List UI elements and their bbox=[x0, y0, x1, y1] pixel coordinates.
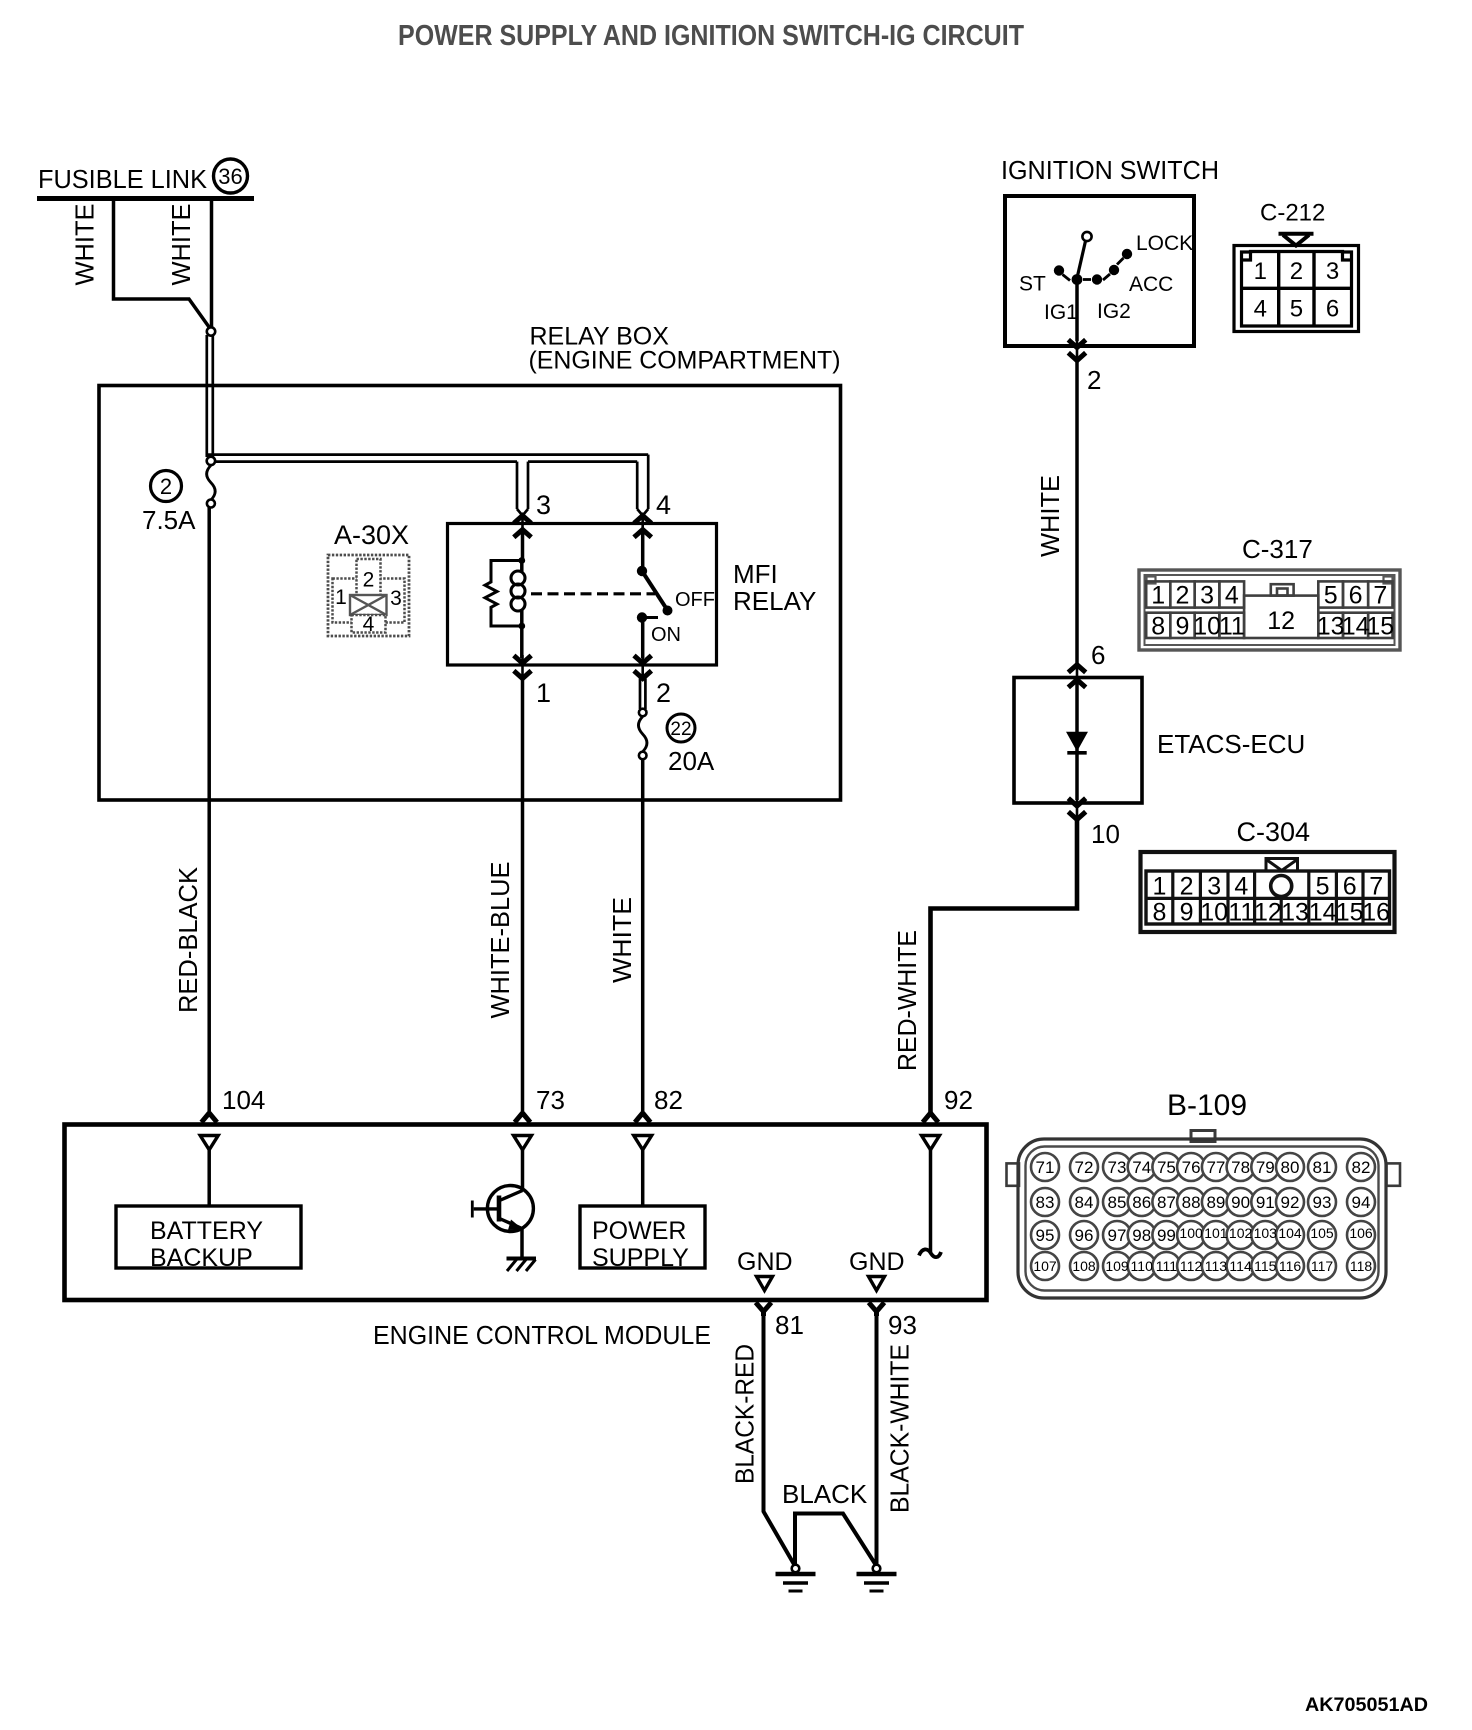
svg-text:5: 5 bbox=[1324, 582, 1338, 610]
C-317 pin 12 cell bbox=[1244, 584, 1318, 638]
svg-text:4: 4 bbox=[656, 490, 671, 520]
C-317 pin cells row 1 (1-4) bbox=[1146, 581, 1244, 607]
svg-text:ST: ST bbox=[1019, 273, 1046, 296]
svg-text:118: 118 bbox=[1350, 1258, 1373, 1274]
relay switch blade (OFF position) bbox=[642, 571, 667, 610]
ground (transistor emitter, chassis) bbox=[507, 1259, 537, 1272]
B-109 pin circles 71-118 bbox=[1031, 1153, 1375, 1280]
connector B-109 shell bbox=[1007, 1131, 1401, 1299]
svg-text:103: 103 bbox=[1254, 1225, 1278, 1241]
contact LOCK bbox=[1117, 249, 1132, 265]
svg-text:6: 6 bbox=[1343, 873, 1357, 901]
bus wire horizontal (relay box internal) bbox=[207, 455, 648, 462]
svg-text:4: 4 bbox=[1254, 296, 1267, 323]
svg-text:RED-BLACK: RED-BLACK bbox=[173, 866, 203, 1013]
svg-text:WHITE-BLUE: WHITE-BLUE bbox=[485, 862, 515, 1019]
svg-text:94: 94 bbox=[1352, 1193, 1371, 1212]
svg-text:GND: GND bbox=[737, 1248, 793, 1276]
wire continuation hook (to other circuits) bbox=[919, 1249, 941, 1257]
bus wire (double line) into relay box bbox=[207, 335, 213, 457]
relay box (engine compartment) outline bbox=[99, 386, 841, 801]
svg-text:5: 5 bbox=[1290, 296, 1303, 323]
ECM pin 92 terminal bbox=[923, 1113, 939, 1122]
svg-text:75: 75 bbox=[1157, 1158, 1176, 1177]
svg-text:POWER SUPPLY AND IGNITION SWIT: POWER SUPPLY AND IGNITION SWITCH-IG CIRC… bbox=[398, 20, 1024, 52]
wire RED-WHITE (ETACS pin 10 to ECM pin 92) bbox=[931, 820, 1078, 1114]
wire IG1 down to switch pin 2 bbox=[1075, 280, 1079, 342]
svg-text:4: 4 bbox=[1234, 873, 1248, 901]
svg-text:IG1: IG1 bbox=[1044, 301, 1078, 324]
connector C-212 body bbox=[1234, 246, 1359, 332]
svg-text:20A: 20A bbox=[668, 746, 715, 776]
C-317 pin cells 13-15 bbox=[1318, 613, 1392, 638]
svg-text:2: 2 bbox=[1290, 258, 1303, 285]
bus wire branch to relay pin 3 bbox=[517, 462, 528, 516]
ECM pin 82 terminal bbox=[635, 1113, 651, 1122]
svg-text:1: 1 bbox=[1254, 258, 1267, 285]
svg-text:7: 7 bbox=[1369, 873, 1383, 901]
svg-text:5: 5 bbox=[1316, 873, 1330, 901]
svg-text:112: 112 bbox=[1180, 1258, 1203, 1274]
svg-text:97: 97 bbox=[1108, 1226, 1127, 1245]
svg-text:15: 15 bbox=[1336, 899, 1364, 927]
svg-text:93: 93 bbox=[1313, 1193, 1332, 1212]
svg-text:11: 11 bbox=[1219, 613, 1245, 641]
svg-text:90: 90 bbox=[1231, 1193, 1250, 1212]
svg-text:LOCK: LOCK bbox=[1136, 232, 1193, 255]
svg-text:13: 13 bbox=[1281, 899, 1309, 927]
svg-text:10: 10 bbox=[1091, 819, 1120, 849]
relay coil shunt resistor R1 bbox=[485, 561, 522, 627]
svg-text:117: 117 bbox=[1311, 1258, 1334, 1274]
svg-text:15: 15 bbox=[1366, 613, 1394, 641]
svg-text:3: 3 bbox=[390, 587, 402, 610]
svg-text:72: 72 bbox=[1075, 1158, 1094, 1177]
relay box label bbox=[529, 323, 841, 375]
svg-text:104: 104 bbox=[1278, 1225, 1302, 1241]
svg-text:2: 2 bbox=[656, 678, 671, 708]
svg-text:111: 111 bbox=[1156, 1258, 1177, 1274]
svg-text:116: 116 bbox=[1279, 1258, 1302, 1274]
svg-text:88: 88 bbox=[1182, 1193, 1201, 1212]
svg-text:82: 82 bbox=[654, 1085, 683, 1115]
C-212 pin numbers 1-6 bbox=[1254, 258, 1340, 323]
svg-text:108: 108 bbox=[1072, 1258, 1096, 1274]
svg-text:87: 87 bbox=[1157, 1193, 1176, 1212]
relay ON contact bbox=[637, 612, 658, 622]
ECM pin 81 terminal (below box) bbox=[756, 1303, 772, 1317]
junction node coil top bbox=[518, 557, 525, 564]
svg-text:16: 16 bbox=[1362, 899, 1390, 927]
svg-text:79: 79 bbox=[1256, 1158, 1275, 1177]
bus wire (double line) pin 2 to fuse 22 bbox=[640, 679, 645, 710]
svg-text:12: 12 bbox=[1267, 607, 1295, 635]
wire ON contact to pin 2 bbox=[641, 618, 645, 659]
GND terminal triangle (pin 93) bbox=[869, 1277, 885, 1291]
svg-text:2: 2 bbox=[1176, 582, 1190, 610]
svg-text:BATTERY: BATTERY bbox=[150, 1217, 263, 1245]
svg-text:C-317: C-317 bbox=[1242, 534, 1313, 564]
diode D1 inside ETACS bbox=[1067, 733, 1086, 753]
C-304 pin grid bbox=[1146, 871, 1390, 924]
svg-text:10: 10 bbox=[1200, 899, 1228, 927]
svg-text:ETACS-ECU: ETACS-ECU bbox=[1157, 729, 1305, 759]
svg-text:92: 92 bbox=[1281, 1193, 1300, 1212]
svg-text:93: 93 bbox=[888, 1310, 917, 1340]
ECM internal terminal triangle (pin 104) bbox=[200, 1136, 218, 1150]
svg-text:WHITE: WHITE bbox=[1035, 475, 1065, 557]
relay pin 3 connector arrows bbox=[514, 516, 531, 538]
BATTERY BACKUP block bbox=[116, 1206, 301, 1272]
wire WHITE ignition to ETACS pin 6 bbox=[1075, 361, 1079, 666]
svg-text:36: 36 bbox=[218, 164, 242, 189]
svg-text:9: 9 bbox=[1176, 613, 1190, 641]
svg-text:110: 110 bbox=[1131, 1258, 1154, 1274]
wire to power supply block bbox=[641, 1150, 645, 1206]
svg-text:C-304: C-304 bbox=[1237, 817, 1311, 847]
svg-text:WHITE: WHITE bbox=[70, 204, 100, 286]
svg-text:WHITE: WHITE bbox=[607, 897, 637, 983]
wire BLACK-RED (ECM pin 81 to ground) bbox=[764, 1316, 796, 1566]
contact IG2 bbox=[1083, 274, 1102, 284]
svg-text:9: 9 bbox=[1180, 899, 1194, 927]
ETACS-ECU box bbox=[1014, 678, 1142, 804]
svg-text:1: 1 bbox=[536, 678, 551, 708]
svg-text:81: 81 bbox=[775, 1310, 804, 1340]
relay coil L1 bbox=[511, 561, 525, 627]
ECM pin 93 terminal (below box) bbox=[869, 1303, 885, 1317]
connector A-30X pin layout symbol bbox=[328, 555, 409, 636]
svg-text:115: 115 bbox=[1254, 1258, 1277, 1274]
relay coil wire from pin 3 bbox=[521, 530, 525, 561]
transistor Q1 bbox=[472, 1186, 533, 1232]
svg-text:106: 106 bbox=[1349, 1225, 1373, 1241]
contact ST bbox=[1054, 265, 1070, 280]
svg-text:73: 73 bbox=[1108, 1158, 1127, 1177]
svg-text:89: 89 bbox=[1206, 1193, 1225, 1212]
svg-text:82: 82 bbox=[1352, 1158, 1371, 1177]
C-304 pin numbers bbox=[1152, 873, 1390, 927]
ECM pin 73 terminal bbox=[515, 1113, 531, 1122]
svg-text:86: 86 bbox=[1132, 1193, 1151, 1212]
connector C-212 orientation triangle bbox=[1279, 234, 1314, 246]
svg-text:76: 76 bbox=[1182, 1158, 1201, 1177]
svg-text:2: 2 bbox=[1087, 365, 1101, 395]
svg-text:6: 6 bbox=[1349, 582, 1363, 610]
svg-text:6: 6 bbox=[1326, 296, 1339, 323]
svg-text:7: 7 bbox=[1373, 582, 1387, 610]
engine control module box bbox=[65, 1125, 987, 1301]
svg-text:B-109: B-109 bbox=[1167, 1089, 1247, 1122]
svg-text:RED-WHITE: RED-WHITE bbox=[892, 930, 922, 1071]
svg-text:BLACK: BLACK bbox=[782, 1479, 868, 1509]
contact ACC bbox=[1103, 265, 1119, 280]
fuse reference circled 2 bbox=[151, 471, 182, 502]
svg-text:10: 10 bbox=[1193, 613, 1221, 641]
ETACS pin 10 connector arrows bbox=[1068, 798, 1085, 820]
svg-text:80: 80 bbox=[1281, 1158, 1300, 1177]
svg-text:100: 100 bbox=[1179, 1225, 1203, 1241]
svg-text:113: 113 bbox=[1205, 1258, 1228, 1274]
ECM pin 104 terminal bbox=[201, 1113, 217, 1122]
svg-text:104: 104 bbox=[222, 1085, 265, 1115]
relay pin 1 connector arrows bbox=[514, 626, 531, 679]
svg-text:BACKUP: BACKUP bbox=[150, 1244, 253, 1272]
fuse 2 (7.5A) symbol bbox=[207, 465, 216, 507]
wire to transistor collector bbox=[521, 1150, 525, 1191]
svg-text:83: 83 bbox=[1036, 1193, 1055, 1212]
ground symbol (BLACK-WHITE) bbox=[857, 1565, 897, 1591]
fuse reference circled 22 bbox=[667, 714, 695, 742]
svg-text:3: 3 bbox=[1326, 258, 1339, 285]
wire pin 92 internal bbox=[929, 1150, 933, 1252]
svg-text:A-30X: A-30X bbox=[334, 520, 409, 550]
C-317 pin cells 5-7 bbox=[1318, 581, 1392, 607]
wire inside ETACS bbox=[1075, 680, 1079, 800]
svg-text:11: 11 bbox=[1228, 899, 1254, 927]
svg-text:107: 107 bbox=[1033, 1258, 1057, 1274]
svg-text:13: 13 bbox=[1317, 613, 1345, 641]
MFI relay outline U1 bbox=[448, 524, 717, 666]
junction node (wire join above relay box) bbox=[207, 327, 215, 335]
svg-text:FUSIBLE LINK: FUSIBLE LINK bbox=[38, 164, 208, 194]
svg-text:1: 1 bbox=[1151, 582, 1165, 610]
svg-text:3: 3 bbox=[1207, 873, 1221, 901]
svg-text:ON: ON bbox=[651, 624, 681, 646]
connector C-304 body bbox=[1141, 852, 1395, 932]
ground symbol (BLACK-RED) bbox=[776, 1565, 816, 1591]
svg-text:BLACK-WHITE: BLACK-WHITE bbox=[885, 1344, 915, 1513]
svg-text:MFI: MFI bbox=[733, 559, 778, 589]
wire WHITE right from fusible link bbox=[210, 201, 214, 327]
wire to battery backup bbox=[207, 1150, 211, 1206]
svg-text:4: 4 bbox=[363, 613, 375, 636]
relay actuation dashed link bbox=[531, 592, 655, 595]
fusible link bus bar bbox=[37, 196, 254, 201]
svg-text:99: 99 bbox=[1157, 1226, 1176, 1245]
svg-text:4: 4 bbox=[1225, 582, 1239, 610]
C-317 pin cells row 2 (8-11) bbox=[1146, 613, 1244, 638]
svg-text:22: 22 bbox=[670, 719, 691, 740]
wire BLACK-WHITE (ECM pin 93 to ground) bbox=[875, 1316, 879, 1566]
svg-text:81: 81 bbox=[1313, 1158, 1332, 1177]
svg-text:3: 3 bbox=[536, 490, 551, 520]
MFI RELAY label bbox=[733, 559, 816, 616]
svg-text:2: 2 bbox=[363, 569, 375, 592]
fuse 22 (20A) symbol bbox=[638, 709, 647, 760]
wire WHITE-BLUE (relay pin 1 to ECM pin 73) bbox=[521, 679, 525, 1114]
svg-text:71: 71 bbox=[1036, 1158, 1055, 1177]
relay pin 4 connector arrows bbox=[634, 516, 651, 538]
svg-text:8: 8 bbox=[1151, 613, 1165, 641]
svg-text:1: 1 bbox=[335, 586, 347, 609]
wire WHITE (fuse 22 to ECM pin 82) bbox=[641, 760, 645, 1114]
junction node coil bottom bbox=[518, 623, 525, 630]
GND terminal triangle (pin 81) bbox=[757, 1277, 773, 1291]
connector C-317 body bbox=[1139, 570, 1400, 650]
svg-text:12: 12 bbox=[1254, 899, 1282, 927]
svg-text:7.5A: 7.5A bbox=[142, 505, 196, 535]
svg-text:14: 14 bbox=[1309, 899, 1337, 927]
C-317 pin numbers bbox=[1151, 582, 1394, 641]
svg-text:SUPPLY: SUPPLY bbox=[592, 1244, 689, 1272]
svg-text:POWER: POWER bbox=[592, 1217, 686, 1245]
ignition switch box SW1 bbox=[1005, 196, 1194, 346]
svg-text:73: 73 bbox=[536, 1085, 565, 1115]
svg-text:GND: GND bbox=[849, 1248, 905, 1276]
svg-text:114: 114 bbox=[1229, 1258, 1252, 1274]
svg-text:95: 95 bbox=[1036, 1226, 1055, 1245]
svg-text:98: 98 bbox=[1132, 1226, 1151, 1245]
svg-text:(ENGINE COMPARTMENT): (ENGINE COMPARTMENT) bbox=[529, 347, 841, 375]
relay pin 2 connector arrows bbox=[634, 655, 651, 679]
svg-text:AK705051AD: AK705051AD bbox=[1305, 1695, 1428, 1716]
svg-text:C-212: C-212 bbox=[1260, 200, 1325, 227]
svg-text:78: 78 bbox=[1231, 1158, 1250, 1177]
wire BLACK (ground jumper) bbox=[795, 1514, 877, 1567]
ignition switch pin 2 connector arrows bbox=[1068, 340, 1085, 361]
svg-text:ACC: ACC bbox=[1129, 273, 1173, 296]
POWER SUPPLY block bbox=[580, 1206, 705, 1272]
svg-text:ENGINE CONTROL MODULE: ENGINE CONTROL MODULE bbox=[373, 1320, 711, 1350]
svg-text:92: 92 bbox=[944, 1085, 973, 1115]
svg-text:IGNITION SWITCH: IGNITION SWITCH bbox=[1001, 155, 1219, 185]
svg-text:96: 96 bbox=[1075, 1226, 1094, 1245]
fusible link number 36 bbox=[214, 159, 248, 193]
svg-text:84: 84 bbox=[1075, 1193, 1094, 1212]
svg-text:105: 105 bbox=[1310, 1225, 1334, 1241]
svg-text:2: 2 bbox=[160, 474, 172, 499]
wire emitter to ground bbox=[520, 1229, 524, 1258]
svg-text:1: 1 bbox=[1152, 873, 1166, 901]
svg-text:3: 3 bbox=[1200, 582, 1214, 610]
svg-text:8: 8 bbox=[1152, 899, 1166, 927]
svg-text:85: 85 bbox=[1108, 1193, 1127, 1212]
wire RED-BLACK (fuse 2 to ECM pin 104) bbox=[207, 508, 211, 1114]
ignition switch rotor contact bbox=[1078, 232, 1092, 276]
svg-text:109: 109 bbox=[1105, 1258, 1129, 1274]
svg-text:77: 77 bbox=[1206, 1158, 1225, 1177]
svg-text:74: 74 bbox=[1132, 1158, 1151, 1177]
wire WHITE left from fusible link bbox=[114, 201, 210, 327]
contact IG1 (pivot) bbox=[1072, 274, 1083, 285]
relay switch common contact (pin 4 side) bbox=[641, 530, 645, 569]
svg-text:6: 6 bbox=[1091, 640, 1105, 670]
ECM internal terminal triangle (pin 73) bbox=[514, 1136, 532, 1150]
svg-text:IG2: IG2 bbox=[1097, 300, 1131, 323]
svg-text:WHITE: WHITE bbox=[166, 204, 196, 286]
ECM internal terminal triangle (pin 92) bbox=[922, 1136, 940, 1150]
svg-text:OFF: OFF bbox=[675, 589, 715, 611]
ETACS pin 6 connector arrows bbox=[1068, 665, 1085, 688]
svg-text:BLACK-RED: BLACK-RED bbox=[730, 1344, 760, 1484]
svg-text:2: 2 bbox=[1180, 873, 1194, 901]
svg-text:91: 91 bbox=[1256, 1193, 1275, 1212]
ECM internal terminal triangle (pin 82) bbox=[634, 1136, 652, 1150]
svg-text:102: 102 bbox=[1229, 1225, 1253, 1241]
svg-text:101: 101 bbox=[1204, 1225, 1228, 1241]
svg-text:RELAY: RELAY bbox=[733, 586, 816, 616]
bus wire branch to relay pin 4 bbox=[637, 455, 648, 516]
junction node: bus corner with fuse 2 bbox=[207, 457, 215, 465]
